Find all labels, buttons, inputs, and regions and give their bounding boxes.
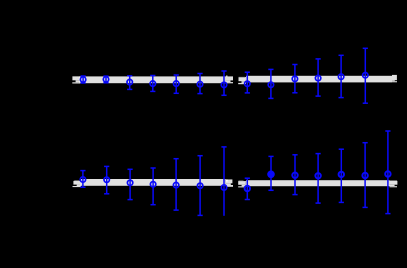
band end structure TR-left [239,76,246,79]
band end structure BR-left [239,179,244,182]
band end structure BL-right [226,178,233,181]
band end structure TL-right [224,76,227,83]
errorbar point TR-4 [315,59,320,96]
errorbar point TL-2 [103,76,108,83]
errorbar point BR-3 [292,155,297,195]
band end structure TL-left [72,75,79,78]
band end structure BL-left [74,179,79,182]
errorbar point BL-7 [221,147,226,216]
errorbar point TL-4 [150,76,155,92]
errorbar point BL-6 [197,156,202,216]
errorbar point BL-2 [104,166,109,193]
confidence band top-right [246,76,392,83]
errorbar point TR-3 [292,65,297,93]
errorbar point TR-5 [338,55,343,97]
confidence band top-left [80,76,225,83]
errorbar point BR-7 [385,131,390,214]
errorbar point TL-5 [174,75,179,93]
errorbar point TR-2 [268,69,273,98]
errorbar point BR-5 [339,149,344,202]
confidence band bottom-left [80,179,226,186]
errorbar point BL-1 [80,171,85,188]
errorbar point TR-6 [363,48,368,103]
band end structure TR-right [392,75,397,80]
errorbar point BR-2 [267,156,275,190]
errorbar point BR-1 [245,178,250,199]
errorbar point TL-3 [127,76,132,90]
band end structure BR-right [390,179,398,182]
errorbar point BL-5 [173,159,178,210]
confidence band bottom-right [246,180,390,186]
errorbar point BL-3 [127,169,132,199]
errorbar point BR-4 [315,154,320,204]
errorbar point TL-6 [197,74,202,94]
errorbar point TL-7 [221,71,226,95]
errorbar point BR-6 [362,143,367,208]
errorbar point TR-1 [245,72,250,93]
errorbar point TL-1 [80,76,85,83]
errorbar point BL-4 [150,168,155,205]
